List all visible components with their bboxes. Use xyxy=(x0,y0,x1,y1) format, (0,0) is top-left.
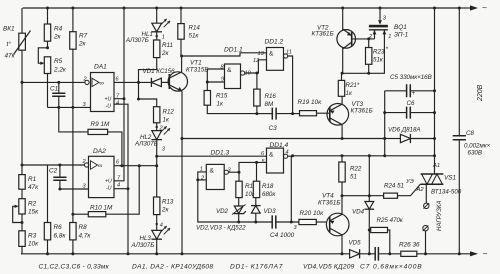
transistor VT4 KT361B xyxy=(318,193,349,256)
wire VT1 collector to DD1.2 pin13 xyxy=(182,53,267,56)
svg-text:VD2: VD2 xyxy=(216,208,229,215)
zener VD6 D818A xyxy=(383,127,436,144)
svg-text:R4: R4 xyxy=(54,26,63,33)
trimmer R5 2.2k xyxy=(38,46,67,107)
svg-text:VD2,VD3 - КД522: VD2,VD3 - КД522 xyxy=(196,225,246,232)
svg-text:t°: t° xyxy=(7,40,12,48)
resistor R16 8M xyxy=(254,73,277,115)
wire VT2 base to buzzer pin2 xyxy=(369,38,375,40)
trimmer R2 15k xyxy=(13,189,39,231)
svg-text:4,7к: 4,7к xyxy=(79,233,92,240)
svg-text:C4 1000: C4 1000 xyxy=(270,232,295,239)
svg-text:&: & xyxy=(269,51,274,58)
svg-text:2к: 2к xyxy=(161,207,169,214)
resistor R24 51 xyxy=(384,179,425,198)
svg-text:47к: 47к xyxy=(28,184,39,191)
wire VT2 emitter node xyxy=(342,30,385,74)
svg-text:13: 13 xyxy=(258,51,265,57)
svg-text:R20 10к: R20 10к xyxy=(300,210,325,217)
svg-text:ВК1: ВК1 xyxy=(3,26,15,33)
wire C5/C6/VD6 left riser xyxy=(384,91,386,156)
wire DD1.3 tied inputs xyxy=(196,172,238,222)
svg-text:VT1: VT1 xyxy=(190,60,202,67)
NAND gate DD1.3 xyxy=(200,150,232,190)
wire DA1 output node xyxy=(114,81,151,101)
buzzer BQ1 ZP-1 xyxy=(368,7,409,41)
svg-text:VS1: VS1 xyxy=(444,175,457,182)
triac VS1 BT134-500 xyxy=(421,7,462,204)
svg-text:R24 51: R24 51 xyxy=(384,183,404,190)
wire DD1.2 output xyxy=(284,54,295,115)
svg-text:C1: C1 xyxy=(50,86,59,93)
wire DA1 pin2 input line xyxy=(21,81,85,84)
svg-text:1к: 1к xyxy=(346,90,353,97)
op-amp DA2 xyxy=(82,148,122,198)
resistor R17 10k xyxy=(236,181,257,198)
svg-text:VD4,VD5 КД209: VD4,VD5 КД209 xyxy=(303,264,355,271)
NAND gate DD1.4 xyxy=(261,142,289,173)
svg-text:C1,C2,C3,C6 - 0,33мк: C1,C2,C3,C6 - 0,33мк xyxy=(39,264,110,271)
resistor R23 51k xyxy=(366,37,389,74)
svg-text:BQ1: BQ1 xyxy=(394,24,407,31)
svg-text:1: 1 xyxy=(162,35,165,41)
capacitor C3 xyxy=(257,108,300,132)
svg-text:2,2к: 2,2к xyxy=(53,67,67,74)
svg-text:~: ~ xyxy=(482,3,487,13)
wire common line VT1 emitter to VD6 node xyxy=(182,138,385,140)
svg-text:R3: R3 xyxy=(28,233,37,240)
svg-text:DA1: DA1 xyxy=(94,64,107,71)
resistor R12 1k xyxy=(139,99,175,132)
svg-text:&: & xyxy=(210,168,215,175)
wire DA2 output node line xyxy=(114,164,158,167)
LED HL2 xyxy=(134,126,170,166)
svg-text:1: 1 xyxy=(388,34,391,40)
svg-text:2к: 2к xyxy=(53,34,62,41)
svg-text:DA2: DA2 xyxy=(93,148,106,155)
resistor R8 4.7k xyxy=(70,223,92,256)
svg-text:-U: -U xyxy=(106,186,112,192)
svg-text:R8: R8 xyxy=(79,224,88,231)
svg-text:15к: 15к xyxy=(28,209,39,216)
svg-text:DD1.2: DD1.2 xyxy=(265,39,284,46)
diode VD4 KD209 xyxy=(352,196,374,232)
svg-text:КТ361Б: КТ361Б xyxy=(318,200,341,207)
resistor R19 10k xyxy=(298,99,330,116)
svg-text:R16: R16 xyxy=(265,93,277,100)
svg-text:R2: R2 xyxy=(28,201,37,208)
svg-text:∞: ∞ xyxy=(98,163,103,170)
resistor R3 10k xyxy=(19,231,39,254)
capacitor C2 xyxy=(49,165,67,189)
load terminal lower xyxy=(423,225,429,255)
resistor R13 2k xyxy=(154,166,174,231)
svg-text:R11: R11 xyxy=(162,42,173,49)
svg-text:680к: 680к xyxy=(262,191,276,198)
svg-text:R9 1М: R9 1М xyxy=(91,121,110,128)
svg-text:+U: +U xyxy=(105,97,112,103)
wire HL2 node to DD1.4 pin6 xyxy=(155,155,266,158)
capacitor C4 1000 xyxy=(239,215,299,239)
svg-text:VT4: VT4 xyxy=(322,193,334,200)
svg-text:~: ~ xyxy=(483,248,488,258)
svg-text:0,002мк×: 0,002мк× xyxy=(464,143,491,150)
svg-text:R1: R1 xyxy=(28,176,37,183)
resistor R22 51 xyxy=(339,156,362,197)
resistor R21 1k xyxy=(338,73,360,97)
svg-text:R18: R18 xyxy=(262,183,274,190)
capacitor C1 xyxy=(50,82,65,107)
resistor R26 36 xyxy=(399,242,420,257)
resistor R25 470k xyxy=(368,217,404,255)
wire DA2 pin3 input line xyxy=(58,188,88,191)
svg-text:VD3: VD3 xyxy=(264,208,277,215)
wire +9V feed column xyxy=(114,7,126,181)
svg-text:4: 4 xyxy=(160,223,163,229)
resistor R4 2k xyxy=(44,8,62,48)
resistor R15 1k xyxy=(204,82,257,114)
svg-text:1к: 1к xyxy=(163,117,170,124)
svg-text:6,8к: 6,8к xyxy=(54,233,67,240)
svg-text:1к: 1к xyxy=(217,101,224,108)
wire DD1.4 pin5 to DD1.3 output xyxy=(239,162,267,181)
svg-text:51: 51 xyxy=(350,174,357,181)
svg-text:VD5: VD5 xyxy=(349,240,362,247)
NAND gate DD1.1 xyxy=(221,47,252,89)
svg-text:VD4: VD4 xyxy=(352,209,365,216)
resistor R11 2k xyxy=(139,40,173,82)
svg-text:4: 4 xyxy=(117,183,120,189)
wire gate drive line xyxy=(342,156,384,197)
wire DD1.4 output xyxy=(284,154,298,231)
resistor R18 680k xyxy=(253,161,276,198)
svg-text:АЛ307Б: АЛ307Б xyxy=(134,141,158,148)
zener VD2 KD522 xyxy=(216,198,246,224)
svg-text:R14: R14 xyxy=(189,25,201,32)
svg-text:R10 1М: R10 1М xyxy=(90,205,113,212)
resistor R1 47k xyxy=(19,82,39,191)
svg-text:12: 12 xyxy=(253,58,260,64)
svg-text:47к: 47к xyxy=(5,53,16,60)
svg-text:+U: +U xyxy=(105,179,112,185)
wire DD1.1 output xyxy=(241,60,267,75)
svg-text:-U: -U xyxy=(106,104,112,110)
svg-text:VD6 Д818А: VD6 Д818А xyxy=(388,127,421,134)
svg-text:DD1.1: DD1.1 xyxy=(224,47,243,54)
svg-text:DD1.3: DD1.3 xyxy=(211,150,230,157)
svg-text:ВТ134-500: ВТ134-500 xyxy=(431,189,462,196)
svg-text:&: & xyxy=(269,152,274,159)
svg-text:А1: А1 xyxy=(432,163,440,169)
svg-text:КТ361Б: КТ361Б xyxy=(312,31,334,38)
wire DA1 pin3 input line xyxy=(48,106,91,109)
wire R7/R8 column xyxy=(72,107,74,222)
LED HL1 xyxy=(125,7,170,45)
svg-text:R25 470к: R25 470к xyxy=(377,217,404,224)
load terminal upper xyxy=(424,203,430,209)
svg-text:R6: R6 xyxy=(54,224,63,231)
resistor R7 2k xyxy=(70,8,88,107)
resistor R14 51k xyxy=(178,7,201,57)
capacitor C7 xyxy=(375,247,378,261)
svg-text:АЛ307Б: АЛ307Б xyxy=(125,37,149,44)
svg-text:R26 36: R26 36 xyxy=(399,242,420,249)
svg-text:КТ361Б: КТ361Б xyxy=(351,108,373,115)
svg-text:ЗП-1: ЗП-1 xyxy=(394,32,409,39)
LED HL3 xyxy=(131,226,171,255)
NAND gate DD1.2 xyxy=(253,39,292,71)
svg-text:R7: R7 xyxy=(79,33,88,40)
svg-text:630В: 630В xyxy=(468,150,482,157)
svg-text:C8: C8 xyxy=(466,130,474,137)
capacitor C6 xyxy=(383,100,436,119)
svg-text:А2: А2 xyxy=(416,187,425,193)
svg-text:C3: C3 xyxy=(269,125,278,132)
wire bottom 220V return line xyxy=(21,248,488,258)
wire DD1.1 tied inputs xyxy=(206,69,225,84)
svg-text:DD1.4: DD1.4 xyxy=(270,142,289,149)
svg-text:220В: 220В xyxy=(477,84,484,102)
svg-text:УЭ: УЭ xyxy=(405,179,414,185)
resistor R20 10k xyxy=(299,210,326,225)
svg-text:C5 330мк×16В: C5 330мк×16В xyxy=(390,74,432,81)
svg-text:АЛ307Б: АЛ307Б xyxy=(131,242,155,249)
svg-text:2к: 2к xyxy=(78,41,87,48)
resistor R6 6.8k xyxy=(44,165,66,255)
thermistor BK1 xyxy=(3,8,31,82)
resistor R10 1M xyxy=(71,166,139,217)
diode VD5 KD209 xyxy=(349,240,362,259)
wire -U column xyxy=(114,104,130,255)
svg-text:R19 10к: R19 10к xyxy=(298,99,323,106)
svg-text:R12: R12 xyxy=(163,109,175,116)
svg-text:НАГРУЗКА: НАГРУЗКА xyxy=(437,201,443,231)
wire pulse line to thyristor network xyxy=(291,154,436,157)
svg-text:C6: C6 xyxy=(407,100,415,107)
transistor VT1 KT315B xyxy=(168,55,208,256)
op-amp DA1 xyxy=(83,64,121,112)
diode VD3 KD522 xyxy=(251,198,276,224)
transistor VT3 KT361B xyxy=(327,96,373,140)
svg-text:∞: ∞ xyxy=(100,80,105,87)
svg-text:R23: R23 xyxy=(373,49,385,56)
svg-text:51к: 51к xyxy=(189,33,200,40)
svg-text:+: + xyxy=(412,90,416,97)
svg-text:R5: R5 xyxy=(54,58,63,65)
capacitor C5 330u xyxy=(385,74,436,97)
wire top 220V rail xyxy=(23,3,487,13)
capacitor C8 xyxy=(453,7,491,256)
svg-text:2к: 2к xyxy=(161,50,169,57)
svg-text:10к: 10к xyxy=(28,241,39,248)
svg-text:КТ315Б: КТ315Б xyxy=(186,67,209,74)
svg-text:R13: R13 xyxy=(162,199,174,206)
wire DA1 +U pin7 xyxy=(114,97,126,100)
wire DA2 pin2 input line xyxy=(21,164,85,167)
svg-text:C7 0,68мк×400В: C7 0,68мк×400В xyxy=(360,264,423,271)
svg-text:8М: 8М xyxy=(265,101,274,108)
wire DA2 power pins xyxy=(114,187,130,190)
svg-text:51к: 51к xyxy=(373,57,384,64)
svg-text:4: 4 xyxy=(116,101,119,107)
diode VD1 KS156 xyxy=(143,68,176,87)
svg-text:R21*: R21* xyxy=(346,82,360,89)
wire DD1.3 output xyxy=(224,170,240,174)
resistor R9 1M xyxy=(59,107,122,165)
svg-text:DA1, DA2 - КР140УД608: DA1, DA2 - КР140УД608 xyxy=(132,264,213,271)
svg-text:C2: C2 xyxy=(49,168,58,175)
svg-text:DD1- К176ЛА7: DD1- К176ЛА7 xyxy=(230,264,283,271)
svg-text:VD1 КС156: VD1 КС156 xyxy=(143,68,176,75)
transistor VT2 KT361B xyxy=(312,7,369,75)
svg-text:R22: R22 xyxy=(350,166,362,173)
svg-text:&: & xyxy=(227,67,232,74)
svg-text:R15: R15 xyxy=(216,93,228,100)
